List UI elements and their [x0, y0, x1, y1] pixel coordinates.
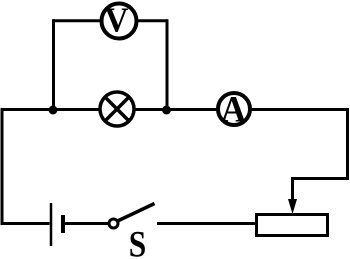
rheostat slider arrowhead [288, 199, 297, 214]
wire jog horizontal [291, 177, 349, 180]
node junction right [162, 106, 171, 115]
battery long plate [50, 203, 53, 246]
svg-text:V: V [104, 2, 128, 40]
lamp L1 circle [100, 92, 134, 126]
wire top branch horizontal [53, 19, 167, 22]
ammeter A1 circle [218, 93, 250, 125]
svg-text:A: A [221, 89, 246, 130]
lamp L1 cross stroke 2 [105, 97, 130, 122]
wire voltmeter branch right vertical [166, 19, 169, 111]
rheostat R body [257, 215, 328, 236]
svg-text:S: S [129, 224, 146, 259]
wire voltmeter branch left vertical [52, 19, 55, 111]
switch pivot circle [109, 219, 118, 228]
switch lever [118, 204, 155, 222]
wire switch to rheostat [157, 222, 256, 225]
wire left vertical [1, 108, 4, 225]
wire main horizontal [1, 108, 350, 111]
wire right vertical [346, 108, 349, 180]
node junction left [49, 106, 58, 115]
wire bottom left segment [1, 222, 50, 225]
rheostat slider arrow shaft [291, 177, 294, 203]
voltmeter V1 circle [102, 4, 137, 39]
lamp L1 cross stroke 1 [105, 97, 130, 122]
battery short plate [61, 215, 65, 233]
wire battery to switch [65, 222, 109, 225]
